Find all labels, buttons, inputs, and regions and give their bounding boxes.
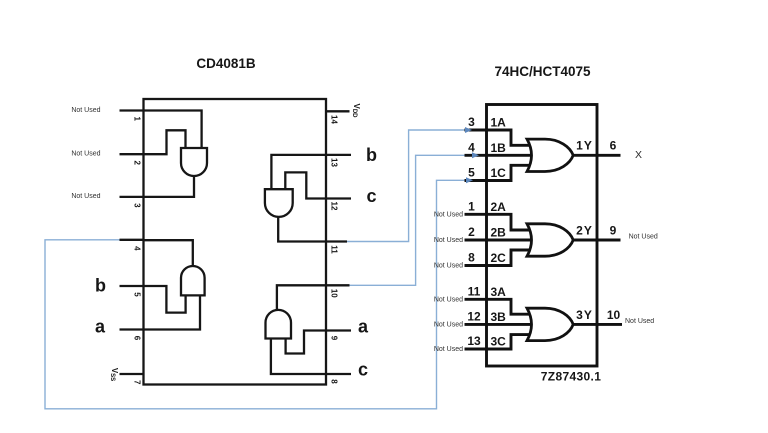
svg-text:a: a [95,317,106,337]
svg-text:2: 2 [132,160,141,165]
svg-text:Not Used: Not Used [434,211,463,218]
svg-text:1: 1 [468,200,475,214]
svg-text:a: a [358,316,369,336]
svg-text:10: 10 [607,308,621,322]
IC U2 74HC/HCT4075 body [487,105,598,367]
wire OR2 output 2Y to pin9 [573,239,620,242]
pin 8 stub [465,264,488,267]
svg-text:9: 9 [610,223,617,237]
pin 1 stub [465,213,488,216]
svg-text:1Y: 1Y [576,139,593,153]
wire pin5 to gate B input [144,286,186,313]
blue wire pin10 CD4081B to pin4 74HC4075 [350,155,474,285]
svg-text:4: 4 [132,246,141,251]
arrowhead wire pin4 [472,152,479,158]
svg-text:5: 5 [468,166,475,180]
pin 5 stub [465,179,488,182]
AND gate D [266,310,292,339]
svg-text:Not Used: Not Used [71,193,100,200]
pin 3 stub [465,129,488,132]
svg-text:b: b [95,275,106,295]
svg-text:11: 11 [329,245,338,254]
wire pin9 to gate D input [286,331,326,354]
wire gate B output to pin4 [144,240,193,267]
svg-text:VSS: VSS [109,368,118,381]
svg-text:c: c [358,359,368,379]
svg-text:Not Used: Not Used [434,237,463,244]
svg-text:8: 8 [468,251,475,265]
wire gate D output to pin10 [277,285,326,311]
svg-text:8: 8 [329,379,338,384]
wire 1A to OR gate 1 [487,130,533,145]
svg-text:VDD: VDD [351,103,360,118]
wire 1C to OR gate 1 [487,165,533,180]
wire gate C output to pin11 [278,216,325,242]
wire 3A to OR gate 3 [487,299,533,314]
svg-text:1C: 1C [491,166,507,180]
wire 2A to OR gate 2 [487,214,533,230]
OR gate 3 [527,308,573,340]
svg-text:X: X [635,149,642,161]
svg-text:Not Used: Not Used [71,151,100,158]
wire pin2 to gate A input [144,130,186,154]
pin 4 stub [465,154,488,157]
svg-text:Not Used: Not Used [629,234,658,241]
svg-text:4: 4 [468,141,475,155]
wire OR1 output 1Y to pin6 [573,154,620,157]
wire OR3 output 3Y to pin10 [573,323,622,326]
svg-text:c: c [366,186,376,206]
pin 2 stub [120,153,145,155]
pin 5 stub [120,285,145,287]
svg-text:2C: 2C [491,251,507,265]
svg-text:CD4081B: CD4081B [196,56,256,71]
wire pin8 to gate D input [271,339,326,375]
IC U1 CD4081B body [144,99,327,385]
pin 14 stub [326,110,350,112]
svg-text:13: 13 [467,334,481,348]
pin 11 stub [465,298,488,301]
pin 12 stub [465,323,488,326]
svg-text:10: 10 [329,289,338,298]
pin 13 stub [465,348,488,351]
pin 13 stub [326,154,352,156]
svg-text:3: 3 [468,115,475,129]
svg-text:2B: 2B [491,226,507,240]
svg-text:3B: 3B [491,310,507,324]
blue wire pin11 CD4081B to pin3 74HC4075 [347,130,467,242]
wire pin12 to gate C input [285,172,325,198]
svg-text:3A: 3A [491,285,507,299]
svg-text:1A: 1A [491,116,507,130]
svg-text:2A: 2A [491,200,507,214]
svg-text:2: 2 [468,225,475,239]
arrowhead wire pin5 [466,177,473,183]
pin 4 stub [120,239,145,241]
wire 2C to OR gate 2 [487,250,533,266]
pin 12 stub [326,197,352,199]
svg-text:Not Used: Not Used [434,263,463,270]
svg-text:b: b [366,145,377,165]
svg-text:Not Used: Not Used [434,346,463,353]
wire pin1 to gate A input [144,111,202,149]
pin 6 stub [120,328,145,330]
pin 1 stub [120,109,145,111]
svg-text:11: 11 [468,285,481,299]
pin 11 stub [326,240,348,242]
AND gate B [181,266,205,295]
wire 1B to OR gate 1 [487,154,536,157]
svg-text:6: 6 [132,336,141,341]
svg-text:2Y: 2Y [576,223,593,237]
svg-text:1: 1 [132,116,141,121]
pin 10 stub [326,284,350,286]
pin 2 stub [465,239,488,242]
pin 8 stub [326,373,352,375]
blue wire pin4 CD4081B to pin5 74HC4075 [45,180,468,408]
svg-text:5: 5 [132,292,141,297]
svg-text:Not Used: Not Used [434,296,463,303]
wire 3C to OR gate 3 [487,335,533,349]
svg-text:74HC/HCT4075: 74HC/HCT4075 [494,64,591,79]
wire gate A output to pin3 [144,175,194,197]
wire pin6 to gate B input [144,295,200,329]
svg-text:Not Used: Not Used [434,322,463,329]
svg-text:14: 14 [329,115,338,124]
wire 3B to OR gate 3 [487,323,536,326]
wire pin13 to gate C input [271,155,325,189]
svg-text:3Y: 3Y [576,308,593,322]
pin 3 stub [120,196,145,198]
pin 9 stub [326,329,352,331]
svg-text:1B: 1B [491,141,507,155]
svg-text:3: 3 [132,203,141,208]
OR gate 1 [527,139,573,171]
AND gate C [265,189,293,217]
svg-text:3C: 3C [491,335,507,349]
svg-text:7Z87430.1: 7Z87430.1 [541,370,602,384]
arrowhead wire pin3 [465,127,472,133]
OR gate 2 [527,224,573,256]
wire 2B to OR gate 2 [487,239,536,242]
svg-text:Not Used: Not Used [625,318,654,325]
svg-text:6: 6 [610,139,617,153]
svg-text:13: 13 [329,158,338,167]
svg-text:9: 9 [329,336,338,341]
svg-text:7: 7 [132,380,141,385]
AND gate A [181,148,207,176]
svg-text:12: 12 [467,310,481,324]
svg-text:Not Used: Not Used [71,107,100,114]
pin 7 stub [120,373,145,375]
svg-text:12: 12 [329,202,338,211]
